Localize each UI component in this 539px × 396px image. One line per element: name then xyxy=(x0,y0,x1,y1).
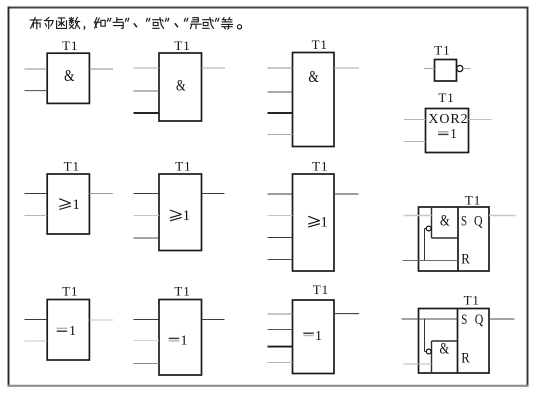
wire: U7 input 1 xyxy=(134,193,160,195)
title text: Boolean functions, e.g. AND, OR, XOR etc. xyxy=(30,17,241,29)
wire: U11 input 2 xyxy=(134,340,160,342)
OR gate U8 (4-input, label T1) xyxy=(293,174,335,271)
svg-text:T1: T1 xyxy=(312,37,328,52)
svg-text:1: 1 xyxy=(72,197,80,213)
svg-text:R: R xyxy=(461,351,470,367)
wire: U9 Q output xyxy=(489,215,516,217)
svg-text:Q: Q xyxy=(474,212,483,228)
wire: U2 input 3 xyxy=(134,112,160,114)
wire: U13 set input xyxy=(402,318,458,320)
svg-text:T1: T1 xyxy=(174,38,190,53)
inversion bubble of U4 xyxy=(457,65,463,71)
AND gate U1 (2-input, label T1) xyxy=(47,53,89,103)
svg-text:1: 1 xyxy=(320,214,328,230)
wire: U10 input 2 xyxy=(25,340,48,342)
wire: U4 output xyxy=(463,68,471,70)
wire: U10 output xyxy=(90,319,114,321)
OR gate U7 (3-input, label T1) xyxy=(159,174,202,251)
U9 latch section divider xyxy=(457,207,459,271)
wire: U13 second AND input xyxy=(404,363,432,365)
wire: U7 input 2 xyxy=(134,215,160,217)
wire: U1 input 2 xyxy=(25,90,48,92)
svg-text:&: & xyxy=(64,68,75,86)
wire: U8 input 3 xyxy=(268,237,293,239)
svg-text:1: 1 xyxy=(183,208,191,224)
wire: U1 input 1 xyxy=(25,68,48,70)
wire: U6 output xyxy=(90,193,114,195)
wire: U9 reset input xyxy=(403,260,459,262)
svg-text:S: S xyxy=(461,213,467,229)
wire: U7 output xyxy=(202,193,225,195)
wire: U13 feedback vertical xyxy=(424,319,426,352)
svg-text:1: 1 xyxy=(181,334,188,349)
svg-text:S: S xyxy=(461,312,467,328)
wire: U8 input 2 xyxy=(268,215,293,217)
wire: U2 output xyxy=(202,67,226,69)
AND gate U2 (3-input, label T1) xyxy=(159,53,202,121)
wire: U7 input 3 xyxy=(134,237,160,239)
wire: U12 output xyxy=(334,313,359,315)
SR latch U9 outer box (label T1) xyxy=(419,207,490,271)
wire: U2 input 1 xyxy=(134,67,160,69)
wire: U8 input 1 xyxy=(268,193,293,195)
wire: U2 input 2 xyxy=(134,90,160,92)
wire: U5 input 1 xyxy=(404,119,426,121)
wire: U4 input xyxy=(424,68,435,70)
svg-text:T1: T1 xyxy=(434,43,450,58)
SR latch U13 outer box (label T1) xyxy=(419,309,490,374)
wire: U8 input 4 xyxy=(268,259,293,261)
svg-text:T1: T1 xyxy=(175,159,191,174)
svg-text:1: 1 xyxy=(315,329,322,344)
svg-text:&: & xyxy=(439,340,449,358)
wire: U12 input 4 xyxy=(268,362,293,364)
AND gate U3 (4-input, label T1) xyxy=(293,53,335,147)
wire: U11 input 1 xyxy=(134,319,160,321)
wire: U5 input 2 xyxy=(404,141,426,143)
wire: U1 output xyxy=(90,68,114,70)
XOR gate U5 "XOR2" (2-input, label T1) xyxy=(426,109,469,153)
svg-text:T1: T1 xyxy=(464,292,480,307)
wire: U11 output xyxy=(202,319,225,321)
svg-text:T1: T1 xyxy=(312,159,328,174)
wire: U8 output xyxy=(334,193,359,195)
XOR gate U11 (3-input, label T1) xyxy=(159,300,202,376)
XOR gate U10 (2-input, label T1) xyxy=(47,300,89,361)
svg-text:&: & xyxy=(176,77,186,95)
wire: U11 input 3 xyxy=(134,363,160,365)
svg-text:T1: T1 xyxy=(64,159,80,174)
wire: U13 Q output xyxy=(489,318,515,320)
wire: U9 feedback vertical xyxy=(424,229,426,261)
svg-text:&: & xyxy=(308,69,319,87)
XOR gate U12 (4-input, label T1) xyxy=(293,300,335,374)
wire: U12 input 1 xyxy=(268,313,293,315)
wire: U3 input 3 xyxy=(268,112,293,114)
svg-text:T1: T1 xyxy=(438,90,454,105)
wire: U3 input 2 xyxy=(268,91,293,93)
svg-text:XOR2: XOR2 xyxy=(428,112,468,127)
svg-text:1: 1 xyxy=(450,126,457,141)
wire: U12 input 2 xyxy=(268,329,293,331)
wire: U3 output xyxy=(334,67,359,69)
svg-text:&: & xyxy=(440,212,450,230)
wire: U3 input 4 xyxy=(268,134,293,136)
wire: U10 input 1 xyxy=(25,319,48,321)
svg-text:T1: T1 xyxy=(62,38,78,53)
inversion bubble of U9 AND input xyxy=(426,226,431,231)
wire: U6 input 2 xyxy=(25,215,48,217)
wire: U3 input 1 xyxy=(268,67,293,69)
AND sub-gate of U13 xyxy=(432,340,458,373)
svg-text:Q: Q xyxy=(475,311,484,327)
OR gate U6 (2-input, label T1) xyxy=(47,174,89,234)
svg-text:T1: T1 xyxy=(62,284,78,299)
wire: U9 set input xyxy=(404,215,432,217)
wire: U6 input 1 xyxy=(25,193,48,195)
svg-text:T1: T1 xyxy=(174,284,190,299)
AND sub-gate of U9 xyxy=(432,207,459,238)
U13 latch section divider xyxy=(457,309,459,374)
svg-text:1: 1 xyxy=(69,324,76,339)
inversion bubble of U13 AND input xyxy=(426,349,431,354)
wire: U9 bubble connector xyxy=(425,228,427,230)
svg-text:T1: T1 xyxy=(313,282,329,297)
svg-text:R: R xyxy=(461,251,470,267)
wire: U13 bubble connector xyxy=(425,351,427,353)
svg-text:T1: T1 xyxy=(465,192,481,207)
inverter U4 (label T1) xyxy=(435,60,457,82)
wire: U5 output xyxy=(469,119,492,121)
wire: U12 input 3 xyxy=(268,346,293,348)
